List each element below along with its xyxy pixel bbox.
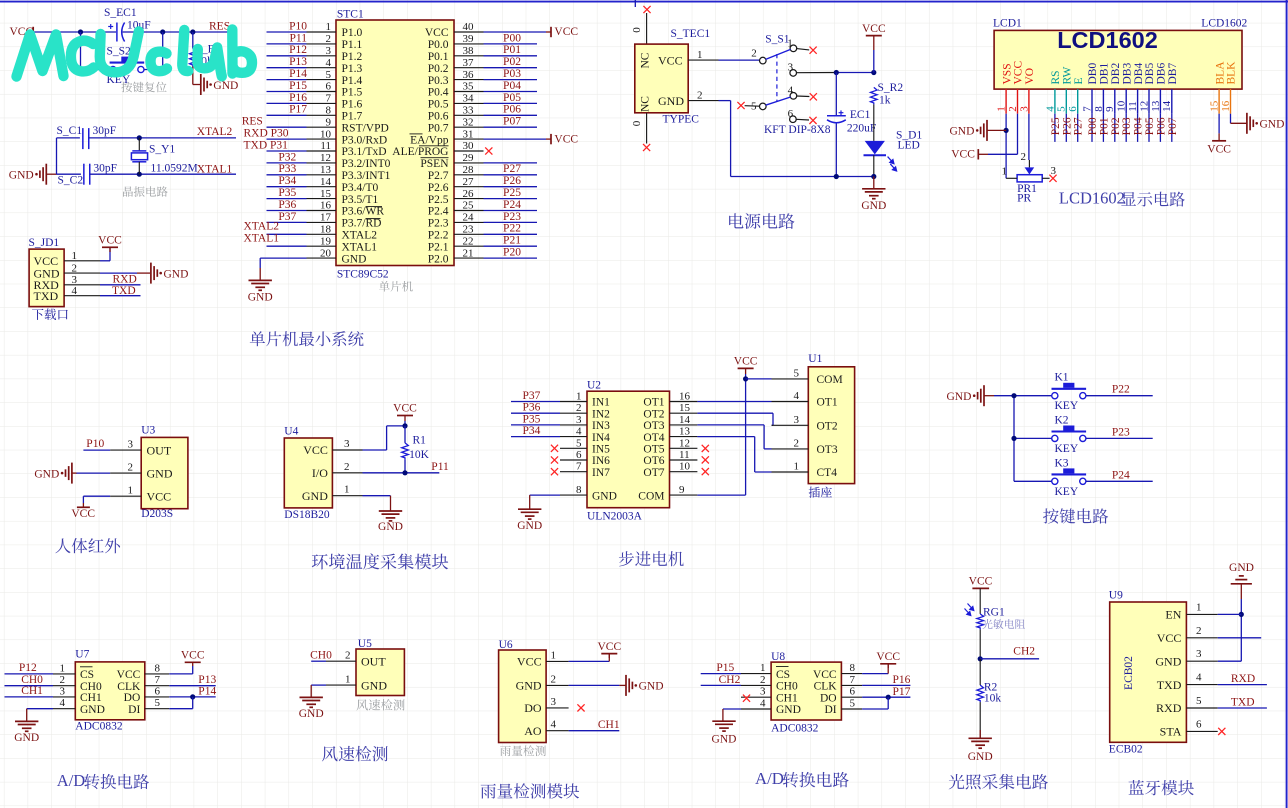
- wire CH2 node: [979, 629, 981, 658]
- U4 pin 3 VCC: [332, 449, 362, 451]
- svg-text:P0.4: P0.4: [428, 87, 449, 99]
- svg-text:28: 28: [463, 164, 475, 176]
- photoresistor RG1: [977, 614, 984, 630]
- svg-text:PR: PR: [1017, 193, 1031, 205]
- label text: [121, 82, 166, 93]
- svg-text:VCC: VCC: [734, 356, 758, 368]
- svg-text:P3.3/INT1: P3.3/INT1: [342, 170, 391, 182]
- wire: [484, 102, 538, 104]
- svg-text:22: 22: [463, 235, 474, 247]
- potentiometer PR1: [1025, 167, 1035, 174]
- svg-text:AO: AO: [524, 724, 542, 738]
- svg-text:VCC: VCC: [862, 23, 886, 35]
- svg-text:8: 8: [576, 484, 582, 496]
- svg-text:13: 13: [1150, 100, 1162, 112]
- svg-text:CH0: CH0: [310, 649, 332, 661]
- wire P34: [511, 436, 560, 438]
- U3 pin 3 OUT: [110, 449, 141, 451]
- overline EA: [410, 133, 423, 135]
- svg-text:2: 2: [72, 262, 78, 274]
- svg-text:7: 7: [576, 461, 582, 473]
- svg-text:CLK: CLK: [814, 681, 838, 693]
- pin 14 P3.4/T0: [307, 186, 337, 188]
- svg-text:37: 37: [463, 57, 475, 69]
- svg-text:6: 6: [788, 108, 794, 120]
- pin 5 P1.4: [307, 79, 337, 81]
- svg-text:BLA: BLA: [1214, 61, 1226, 85]
- pin16 BLK to gnd: [1230, 114, 1232, 124]
- pin 3 P1.2: [307, 55, 337, 57]
- svg-text:ADC0832: ADC0832: [771, 723, 819, 735]
- U5 pin2 OUT: [326, 660, 356, 662]
- pin 19 XTAL1: [307, 245, 337, 247]
- ground (crystal): [45, 164, 47, 185]
- pin 39 P0.0: [454, 43, 484, 45]
- resistor R2 10k: [979, 659, 981, 685]
- svg-text:OT7: OT7: [643, 467, 664, 479]
- title PIR: [55, 538, 120, 553]
- svg-text:P3.4/T0: P3.4/T0: [342, 182, 379, 194]
- label: [32, 309, 68, 320]
- wire DI: [169, 708, 192, 710]
- svg-text:CH2: CH2: [1013, 645, 1035, 657]
- svg-text:IN5: IN5: [592, 444, 610, 456]
- svg-text:VCC: VCC: [517, 655, 542, 669]
- svg-text:P11: P11: [431, 461, 449, 473]
- svg-text:1: 1: [60, 662, 66, 674]
- U1 pin 1 CT4: [772, 471, 809, 473]
- pin 28 P2.7: [454, 174, 484, 176]
- svg-text:10: 10: [1116, 100, 1128, 112]
- svg-text:VCC: VCC: [951, 149, 975, 161]
- svg-text:P1.0: P1.0: [342, 27, 363, 39]
- svg-text:EN: EN: [1165, 608, 1181, 622]
- svg-text:P2.6: P2.6: [428, 182, 449, 194]
- ground (U4): [379, 510, 402, 512]
- svg-text:P2.3: P2.3: [428, 218, 449, 230]
- wire P23: [1086, 437, 1153, 439]
- svg-text:8: 8: [155, 662, 161, 674]
- ground (U7): [15, 720, 38, 722]
- svg-text:STC89C52: STC89C52: [337, 269, 389, 281]
- svg-text:P12: P12: [289, 44, 307, 56]
- svg-text:LCD1602: LCD1602: [1059, 188, 1125, 207]
- svg-text:VCC: VCC: [303, 443, 328, 457]
- svg-text:DO: DO: [820, 692, 837, 704]
- svg-text:4: 4: [1196, 672, 1202, 684]
- svg-text:13: 13: [679, 426, 691, 438]
- pin29 wire: [484, 162, 538, 164]
- overline PSEN: [421, 157, 449, 159]
- svg-text:OT2: OT2: [643, 408, 664, 420]
- svg-text:OT3: OT3: [817, 444, 838, 456]
- pin 15 P3.5/T1: [307, 198, 337, 200]
- svg-text:2: 2: [576, 402, 582, 414]
- U8 pin 8 VCC: [841, 673, 862, 675]
- button K1: [1052, 393, 1058, 399]
- svg-text:I/O: I/O: [312, 466, 328, 480]
- wire XTAL1: [90, 173, 236, 175]
- svg-text:LCD1: LCD1: [993, 18, 1022, 30]
- svg-text:12: 12: [320, 152, 331, 164]
- svg-text:VSS: VSS: [1001, 63, 1013, 84]
- svg-text:COM: COM: [817, 374, 843, 386]
- svg-text:K1: K1: [1055, 372, 1069, 384]
- svg-text:P1.3: P1.3: [342, 63, 363, 75]
- svg-text:NC: NC: [640, 52, 652, 68]
- svg-text:P0.6: P0.6: [428, 111, 449, 123]
- svg-text:VCC: VCC: [813, 669, 837, 681]
- svg-text:P35: P35: [523, 413, 541, 425]
- power port VCC (stepper): [738, 367, 754, 369]
- pin 40 VCC: [454, 31, 484, 33]
- svg-text:S_C1: S_C1: [57, 125, 83, 137]
- svg-text:P3.2/INT0: P3.2/INT0: [342, 158, 391, 170]
- pin 11 P3.1/TxD: [307, 150, 337, 152]
- svg-text:21: 21: [463, 247, 474, 259]
- wire to gnd: [979, 702, 981, 738]
- svg-text:P2.7: P2.7: [428, 170, 449, 182]
- svg-text:5: 5: [1056, 106, 1068, 112]
- wire to gnd: [192, 67, 194, 85]
- svg-text:DB0: DB0: [1087, 63, 1099, 85]
- svg-text:10K: 10K: [409, 449, 430, 461]
- svg-text:TXD: TXD: [34, 289, 59, 303]
- pin 12 P3.2/INT0: [307, 162, 337, 164]
- svg-text:P10: P10: [86, 438, 104, 450]
- wire: [56, 138, 58, 174]
- svg-text:VCC: VCC: [71, 508, 95, 520]
- svg-text:U9: U9: [1109, 590, 1123, 602]
- svg-text:RES: RES: [242, 115, 263, 127]
- svg-text:2: 2: [1007, 106, 1019, 112]
- wire P37: [511, 401, 560, 403]
- svg-text:OT6: OT6: [643, 455, 664, 467]
- svg-text:4: 4: [1044, 106, 1056, 112]
- svg-text:14: 14: [320, 176, 332, 188]
- svg-text:P35: P35: [278, 187, 296, 199]
- svg-text:DB6: DB6: [1156, 63, 1168, 85]
- svg-text:18: 18: [320, 224, 332, 236]
- svg-text:30pF: 30pF: [93, 125, 117, 137]
- svg-text:1: 1: [326, 21, 332, 33]
- svg-text:P03: P03: [503, 68, 521, 80]
- wire P10: [83, 449, 110, 451]
- svg-text:40: 40: [463, 21, 475, 33]
- svg-text:P2.4: P2.4: [428, 206, 449, 218]
- svg-text:P15: P15: [716, 662, 734, 674]
- svg-text:GND: GND: [9, 170, 34, 182]
- svg-text:GND: GND: [949, 126, 974, 138]
- svg-text:25: 25: [463, 200, 475, 212]
- wire DI U8: [862, 708, 888, 710]
- pin40 wire to VCC: [484, 31, 547, 33]
- pin 10 P3.0/RxD: [307, 138, 337, 140]
- pin 22 P2.1: [454, 245, 484, 247]
- U2 pin 8 GND: [560, 494, 587, 496]
- svg-text:CH1: CH1: [80, 692, 102, 704]
- overline CS U8: [776, 666, 789, 668]
- svg-text:CH0: CH0: [776, 681, 798, 693]
- no ERC U2 right: [702, 456, 709, 463]
- pin 9 RST/VPD: [307, 126, 337, 128]
- svg-text:LCD1602: LCD1602: [1057, 27, 1158, 53]
- resistor S_R2 1k: [871, 87, 878, 104]
- svg-text:P23: P23: [1112, 426, 1130, 438]
- U2 pin 11 OT6: [670, 459, 698, 461]
- button K3: [1052, 478, 1058, 484]
- svg-text:P1.5: P1.5: [342, 87, 363, 99]
- U7 pin 1 CS: [53, 673, 75, 675]
- U8 pin 3 CH1: [741, 696, 771, 698]
- svg-text:CH0: CH0: [21, 674, 43, 686]
- wire gnd: [311, 684, 326, 686]
- svg-text:GND: GND: [1155, 654, 1181, 668]
- U2 pin 4 IN4: [560, 436, 587, 438]
- svg-text:P0.2: P0.2: [428, 63, 449, 75]
- U1 pin 3 OT2: [772, 424, 809, 426]
- svg-text:DO: DO: [524, 701, 542, 715]
- svg-text:VCC: VCC: [597, 641, 621, 653]
- svg-text:15: 15: [679, 402, 691, 414]
- svg-text:7: 7: [155, 674, 161, 686]
- no ERC STA: [1218, 728, 1225, 735]
- svg-text:P27: P27: [503, 163, 521, 175]
- svg-text:1: 1: [697, 49, 703, 61]
- crystal S_Y1 11.0592M: [138, 138, 140, 151]
- svg-text:DB7: DB7: [1167, 63, 1179, 85]
- svg-text:16: 16: [320, 200, 332, 212]
- svg-text:6: 6: [326, 81, 332, 93]
- svg-text:STC1: STC1: [337, 9, 364, 21]
- overline CS U7: [80, 666, 93, 668]
- svg-text:4: 4: [326, 57, 332, 69]
- wire: [484, 79, 538, 81]
- svg-text:P32: P32: [278, 151, 296, 163]
- svg-text:4: 4: [760, 698, 766, 710]
- svg-text:35: 35: [463, 81, 475, 93]
- wire: [484, 174, 538, 176]
- wire CH1: [569, 730, 620, 732]
- svg-text:S_TEC1: S_TEC1: [671, 28, 711, 40]
- pin 4 P1.3: [307, 67, 337, 69]
- svg-text:7: 7: [326, 93, 332, 105]
- svg-text:TYPEC: TYPEC: [663, 114, 700, 126]
- wire P24: [1086, 480, 1153, 482]
- pin3 wire: [796, 72, 836, 74]
- no ERC DO: [577, 704, 584, 711]
- pin 13 P3.3/INT1: [307, 174, 337, 176]
- svg-text:3: 3: [128, 439, 134, 451]
- svg-text:3: 3: [788, 62, 794, 74]
- svg-text:P06: P06: [503, 104, 521, 116]
- wires keys: [994, 395, 1052, 397]
- pin 26 P2.5: [454, 198, 484, 200]
- U9 pin 3 GND: [1186, 660, 1217, 662]
- svg-text:DB1: DB1: [1099, 63, 1111, 85]
- wire P15: [701, 673, 741, 675]
- svg-text:KFT DIP-8X8: KFT DIP-8X8: [764, 124, 831, 136]
- ground (mcu): [249, 279, 272, 281]
- svg-text:3: 3: [576, 414, 582, 426]
- svg-text:P26: P26: [503, 175, 521, 187]
- svg-text:P3.6/WR: P3.6/WR: [342, 206, 385, 218]
- U8 pin 1 CS: [741, 673, 771, 675]
- svg-text:P16: P16: [289, 92, 307, 104]
- svg-text:P37: P37: [278, 211, 296, 223]
- title temperature: [312, 553, 448, 569]
- svg-text:S_JD1: S_JD1: [29, 237, 60, 249]
- pin 2 P1.1: [307, 43, 337, 45]
- svg-text:30: 30: [463, 140, 475, 152]
- svg-text:XTAL2: XTAL2: [342, 230, 378, 242]
- wire XTAL2: [89, 137, 236, 139]
- svg-text:5: 5: [155, 697, 161, 709]
- svg-text:P1.4: P1.4: [342, 75, 363, 87]
- svg-text:VCC: VCC: [876, 651, 900, 663]
- svg-text:1: 1: [1196, 601, 1202, 613]
- svg-text:P13: P13: [198, 674, 216, 686]
- pin2 GND: [688, 100, 718, 102]
- svg-text:DI: DI: [824, 704, 836, 716]
- svg-text:NC: NC: [640, 96, 652, 112]
- svg-text:1: 1: [760, 662, 766, 674]
- svg-text:OUT: OUT: [361, 654, 386, 668]
- svg-text:P20: P20: [503, 247, 521, 259]
- svg-text:1: 1: [787, 37, 793, 49]
- U6 pin 3 DO: [546, 707, 569, 709]
- svg-text:P12: P12: [19, 662, 37, 674]
- svg-text:2: 2: [760, 674, 766, 686]
- wire gnd return: [730, 101, 732, 177]
- svg-text:GND: GND: [639, 681, 664, 693]
- svg-text:1: 1: [576, 391, 582, 403]
- svg-text:OUT: OUT: [147, 443, 172, 457]
- pin 35 P0.4: [454, 91, 484, 93]
- U2 pin 5 IN5: [560, 447, 587, 449]
- svg-text:TXD: TXD: [1157, 678, 1182, 692]
- svg-text:30pF: 30pF: [93, 162, 117, 174]
- svg-text:S_S2: S_S2: [107, 46, 132, 58]
- svg-text:2: 2: [1196, 625, 1202, 637]
- label: [123, 186, 168, 197]
- svg-text:GND: GND: [164, 268, 189, 280]
- svg-text:IN2: IN2: [592, 408, 610, 420]
- svg-text:P25: P25: [503, 187, 521, 199]
- svg-text:1k: 1k: [879, 94, 891, 106]
- wire P11: [363, 472, 440, 474]
- svg-text:P34: P34: [523, 425, 541, 437]
- no ERC top: [643, 6, 650, 13]
- pin 25 P2.4: [454, 210, 484, 212]
- U2 pin 13 OT4: [670, 436, 698, 438]
- power port VCC: [866, 35, 882, 37]
- svg-text:P0.0: P0.0: [428, 39, 449, 51]
- wire pin8 VCC: [169, 673, 192, 675]
- svg-text:R1: R1: [413, 435, 427, 447]
- svg-text:U2: U2: [587, 380, 601, 392]
- U4 pin 2 I/O: [332, 472, 362, 474]
- pin30 no ERC: [485, 147, 492, 154]
- svg-text:KEY: KEY: [1055, 486, 1079, 498]
- pin3 VO to pot wiper: [1028, 114, 1030, 160]
- svg-text:P17: P17: [289, 104, 307, 116]
- svg-text:GND: GND: [342, 253, 367, 265]
- wire VCC: [569, 660, 610, 662]
- svg-text:LED: LED: [898, 140, 920, 152]
- pin 38 P0.1: [454, 55, 484, 57]
- svg-text:P01: P01: [503, 44, 521, 56]
- wire RXD: [100, 284, 141, 286]
- no ERC CH1 U8: [743, 695, 750, 702]
- U2 pin 6 IN6: [560, 459, 587, 461]
- svg-text:RG1: RG1: [983, 607, 1005, 619]
- svg-text:P2.1: P2.1: [428, 241, 449, 253]
- svg-text:A/D: A/D: [57, 771, 86, 790]
- pin6 stub: [796, 118, 809, 121]
- svg-text:P04: P04: [503, 80, 521, 92]
- svg-text:VCC: VCC: [1013, 61, 1025, 85]
- no ERC U2 pin 5: [551, 445, 558, 452]
- wire CH2: [701, 684, 741, 686]
- svg-text:ECB02: ECB02: [1109, 744, 1143, 756]
- svg-text:GND: GND: [658, 94, 684, 108]
- wire pin4 gnd: [723, 708, 741, 710]
- svg-text:VCC: VCC: [658, 54, 683, 68]
- svg-text:4: 4: [72, 285, 78, 297]
- svg-text:220uF: 220uF: [847, 123, 876, 135]
- svg-text:27: 27: [463, 176, 475, 188]
- overline RD: [366, 218, 381, 220]
- pin1 VCC: [688, 59, 718, 61]
- U8 pin 2 CH0: [741, 684, 771, 686]
- pin 31 EA/Vpp: [454, 138, 484, 140]
- pin 33 P0.6: [454, 114, 484, 116]
- svg-text:BLK: BLK: [1226, 61, 1238, 85]
- pin1 stub: [797, 49, 810, 50]
- svg-text:11: 11: [679, 449, 690, 461]
- svg-text:3: 3: [326, 45, 332, 57]
- svg-text:29: 29: [463, 152, 475, 164]
- U3 pin 2 GND: [110, 472, 141, 474]
- svg-text:A/D: A/D: [755, 769, 784, 788]
- svg-text:IN7: IN7: [592, 467, 610, 479]
- svg-text:XTAL2: XTAL2: [244, 221, 280, 233]
- title light: [949, 774, 1048, 789]
- svg-text:P14: P14: [198, 686, 216, 698]
- svg-text:P01: P01: [1098, 117, 1110, 135]
- switch S_S2 key: [110, 66, 116, 72]
- wire pin4 gnd: [27, 708, 53, 710]
- svg-text:DO: DO: [124, 692, 141, 704]
- svg-text:RXD P30: RXD P30: [244, 127, 289, 139]
- svg-text:XTAL1: XTAL1: [342, 241, 378, 253]
- svg-text:IN6: IN6: [592, 455, 610, 467]
- wire CH0: [311, 660, 326, 662]
- svg-text:P37: P37: [523, 390, 541, 402]
- svg-text:GND: GND: [861, 200, 886, 212]
- svg-text:GND: GND: [968, 751, 993, 763]
- wire VCC bt: [1218, 637, 1262, 639]
- svg-text:OT5: OT5: [643, 444, 664, 456]
- svg-text:3: 3: [60, 685, 66, 697]
- U2 pin 12 OT5: [670, 447, 698, 449]
- pin 18 XTAL2: [307, 233, 337, 235]
- pin 34 P0.5: [454, 102, 484, 104]
- U1 pin 5 COM: [772, 378, 809, 380]
- svg-text:P1.2: P1.2: [342, 51, 363, 63]
- svg-text:CH1: CH1: [598, 719, 620, 731]
